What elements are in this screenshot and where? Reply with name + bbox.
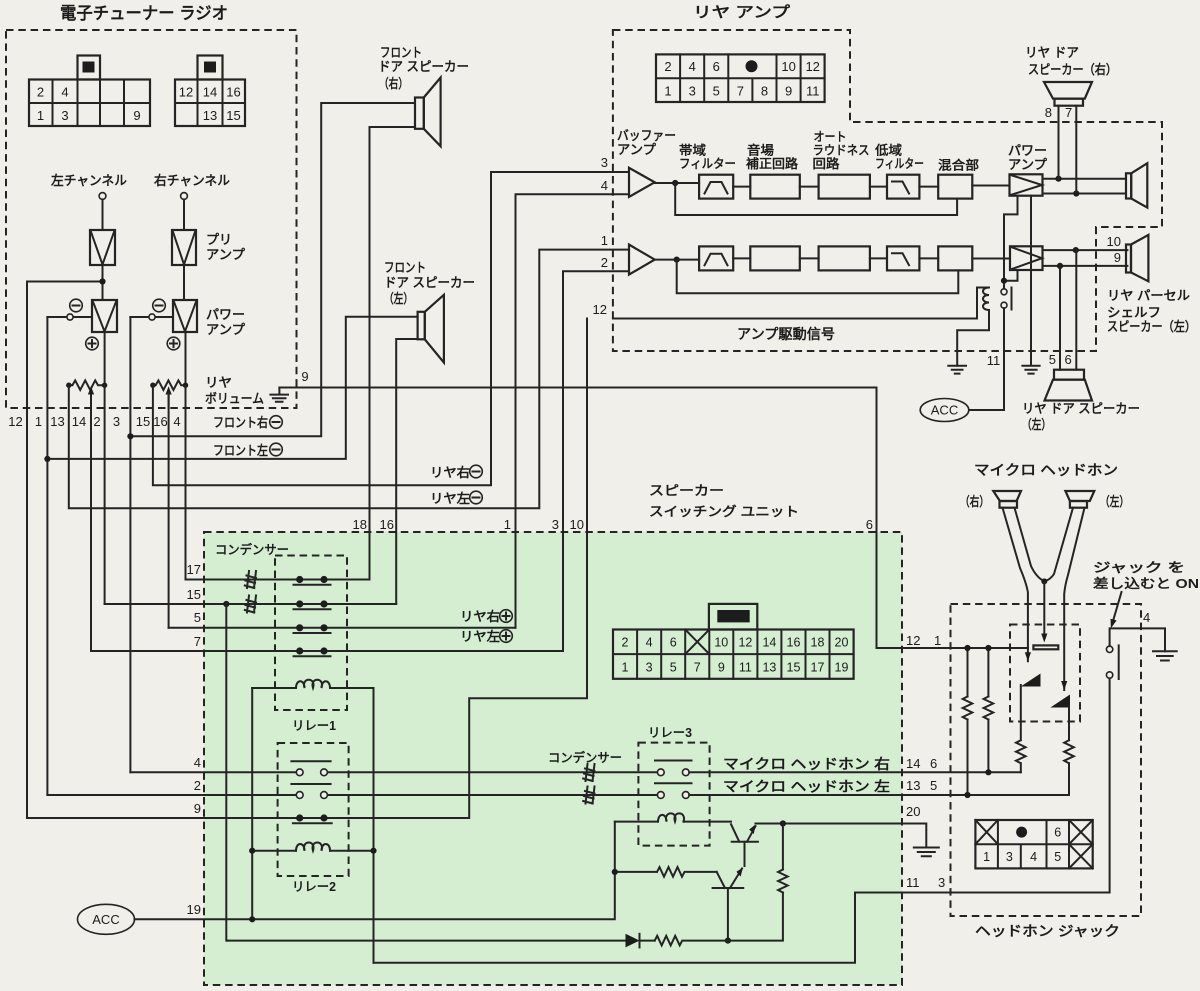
- rear volume pot L: [66, 380, 107, 408]
- svg-text:ACC: ACC: [931, 403, 958, 418]
- wire front left minus: radio pin1 to front left speaker: [47, 317, 417, 795]
- svg-text:スピーカー: スピーカー: [649, 483, 724, 498]
- relay1 row4 wire (green pin7, rear left plus): [91, 650, 563, 652]
- svg-text:4: 4: [1143, 610, 1150, 625]
- power amp L: [92, 300, 117, 332]
- green unit background: [204, 532, 902, 985]
- wire: [800, 257, 819, 259]
- svg-text:6: 6: [670, 636, 677, 650]
- svg-text:3: 3: [1006, 850, 1013, 864]
- svg-text:リヤ アンプ: リヤ アンプ: [693, 4, 791, 21]
- svg-text:シェルフ: シェルフ: [1107, 305, 1161, 320]
- headphone jack dashed box: [951, 604, 1142, 916]
- svg-text:左チャンネル: 左チャンネル: [51, 173, 127, 188]
- band filter box 1: [699, 175, 733, 199]
- svg-text:1: 1: [35, 414, 42, 429]
- svg-text:5: 5: [194, 610, 201, 625]
- resistor R2 pullup: [728, 824, 788, 941]
- wire buffer2 out: [655, 259, 699, 261]
- svg-text:補正回路: 補正回路: [745, 156, 799, 171]
- svg-text:3: 3: [113, 414, 120, 429]
- relay2 contact rowA open: [291, 761, 330, 775]
- svg-text:5: 5: [670, 661, 677, 675]
- svg-text:9: 9: [301, 369, 308, 384]
- wire rear right minus: radio pin15 to rear amp input3: [153, 172, 629, 485]
- connector B (radio 6-pin): [175, 56, 245, 127]
- relay2 contact rowC closed: [293, 814, 332, 823]
- relay2 coil: [249, 842, 377, 853]
- ground in radio box pin9: [270, 369, 308, 402]
- node pin3 branch: [127, 433, 133, 439]
- svg-text:アンプ駆動信号: アンプ駆動信号: [737, 326, 835, 342]
- svg-text:（右）: （右）: [960, 494, 989, 509]
- svg-text:10: 10: [570, 517, 584, 532]
- svg-text:19: 19: [835, 661, 849, 675]
- rear parcel shelf speaker: [1126, 235, 1148, 281]
- svg-text:16: 16: [226, 85, 240, 100]
- svg-text:2: 2: [194, 778, 201, 793]
- svg-text:アンプ: アンプ: [1008, 157, 1048, 172]
- svg-text:5: 5: [713, 84, 720, 99]
- power amp R input wire: [130, 316, 173, 318]
- svg-text:アンプ: アンプ: [206, 247, 246, 262]
- minus circle R: [153, 299, 166, 312]
- svg-text:6: 6: [1054, 826, 1061, 840]
- svg-text:15: 15: [226, 108, 240, 123]
- svg-text:12: 12: [805, 59, 819, 74]
- relay1 contact row3: [294, 624, 331, 633]
- pin20 external ground: [902, 824, 939, 857]
- svg-text:（左）: （左）: [1100, 494, 1129, 509]
- svg-text:4: 4: [689, 59, 696, 74]
- svg-text:ラウドネス: ラウドネス: [813, 144, 870, 158]
- svg-text:7: 7: [194, 634, 201, 649]
- wires down to rear door speaker left: [1060, 250, 1076, 370]
- wire rear right plus riser: relay row3 up to rear amp input4: [516, 194, 630, 628]
- power amp R: [173, 300, 197, 332]
- svg-text:4: 4: [173, 414, 180, 429]
- jack switch: [1106, 628, 1165, 679]
- svg-text:6: 6: [713, 59, 720, 74]
- relay1 contact row4: [294, 647, 331, 656]
- wire mixer1 to power amp1: [972, 185, 1009, 187]
- jack tip contact bar: [1033, 645, 1058, 649]
- svg-text:14: 14: [762, 636, 776, 650]
- power amp1 lower pin path: [1004, 196, 1018, 281]
- relay1 contact row2: [294, 600, 331, 609]
- rear speaker right-facing in box: [1126, 163, 1147, 207]
- svg-text:リヤ ドア スピーカー: リヤ ドア スピーカー: [1022, 401, 1140, 416]
- feedback wire row1: [675, 183, 957, 215]
- earpiece left: [1065, 491, 1094, 508]
- svg-text:（左）: （左）: [1022, 417, 1051, 432]
- svg-text:13: 13: [906, 778, 920, 793]
- node branch dot: [99, 278, 105, 284]
- svg-text:電子チューナー ラジオ: 電子チューナー ラジオ: [60, 4, 228, 23]
- svg-text:4: 4: [61, 85, 68, 100]
- svg-text:リレー2: リレー2: [292, 880, 336, 894]
- svg-text:（右）: （右）: [379, 76, 408, 91]
- wire Q1 emitter to pin20 line: [756, 823, 903, 825]
- sound field box 1: [750, 175, 800, 199]
- transistor Q1: [731, 824, 758, 866]
- rear door speaker left: [1045, 370, 1093, 401]
- cord right earpiece: [1003, 508, 1028, 662]
- rear amp dashed outline: [613, 30, 1162, 351]
- wire relays to jack switch (pin11/3): [374, 678, 1110, 963]
- svg-text:15: 15: [187, 587, 201, 602]
- svg-text:9: 9: [1114, 250, 1121, 265]
- right edge pin labels: [906, 633, 945, 890]
- svg-text:5: 5: [1049, 352, 1056, 367]
- svg-text:ドア スピーカー: ドア スピーカー: [378, 59, 469, 74]
- long ground bus wire to switching unit pin6: [279, 388, 876, 649]
- relay3 coil: [615, 813, 731, 821]
- svg-text:1: 1: [664, 84, 671, 99]
- svg-text:16: 16: [380, 517, 394, 532]
- wire: [919, 186, 938, 188]
- svg-text:9: 9: [194, 801, 201, 816]
- svg-text:リヤ パーセル: リヤ パーセル: [1107, 288, 1190, 303]
- svg-text:8: 8: [1045, 105, 1052, 120]
- relay1 dashed box: [275, 556, 347, 711]
- svg-text:12: 12: [8, 414, 22, 429]
- svg-text:12: 12: [179, 85, 193, 100]
- svg-text:17: 17: [187, 562, 201, 577]
- mixer box 2: [938, 246, 972, 270]
- svg-text:1: 1: [622, 661, 629, 675]
- svg-text:4: 4: [1030, 850, 1037, 864]
- svg-text:スピーカー（右）: スピーカー（右）: [1028, 62, 1117, 77]
- relay3 contact rowA open: [655, 761, 692, 776]
- wire: [870, 186, 887, 188]
- wire green pin6 line to pin12 out: [877, 647, 1028, 649]
- wire pin15 tap down to diode: [226, 604, 227, 941]
- front door speaker left: [418, 295, 444, 363]
- svg-text:リレー1: リレー1: [292, 719, 336, 733]
- svg-text:2: 2: [664, 59, 671, 74]
- svg-text:混合部: 混合部: [938, 158, 980, 173]
- buffer amp 2: [629, 245, 655, 275]
- svg-text:12: 12: [906, 633, 920, 648]
- wire front right minus: radio pin3 to front right speaker: [130, 103, 415, 772]
- relay coil vertical in rear amp: [957, 288, 989, 366]
- green unit dashed border: [204, 532, 902, 985]
- wire flag to resistor R5: [1064, 706, 1074, 795]
- jack inner dashed box: [1010, 625, 1080, 722]
- antenna terminal R: [181, 193, 188, 200]
- svg-text:アンプ: アンプ: [206, 322, 246, 337]
- resistor R3 diode line: [640, 936, 728, 946]
- wire: [919, 257, 938, 259]
- jack connector grid: [975, 820, 1092, 868]
- band filter box 2: [699, 246, 733, 270]
- wire rear left plus riser: relay row4 up to rear amp input2: [563, 271, 629, 651]
- plus circle L: [86, 337, 99, 350]
- relay2 dashed box: [278, 743, 349, 876]
- svg-text:6: 6: [1065, 352, 1072, 367]
- connector A (radio 9-pin): [29, 56, 150, 127]
- svg-text:フロント右: フロント右: [213, 415, 268, 430]
- svg-text:ドア スピーカー: ドア スピーカー: [384, 275, 475, 290]
- svg-text:5: 5: [930, 778, 937, 793]
- svg-text:20: 20: [906, 804, 920, 819]
- rear volume pot R: [150, 380, 188, 408]
- svg-text:（左）: （左）: [384, 291, 413, 306]
- svg-text:7: 7: [1065, 105, 1072, 120]
- svg-text:3: 3: [646, 661, 653, 675]
- ground pin4: [1153, 651, 1177, 660]
- svg-text:9: 9: [133, 108, 140, 123]
- svg-text:3: 3: [689, 84, 696, 99]
- resistor R6 supply left: [963, 648, 973, 795]
- svg-text:マイクロ ヘッドホン 左: マイクロ ヘッドホン 左: [723, 779, 890, 795]
- svg-text:リヤ右: リヤ右: [460, 609, 500, 624]
- svg-text:12: 12: [738, 636, 752, 650]
- svg-text:19: 19: [187, 902, 201, 917]
- svg-text:13: 13: [203, 108, 217, 123]
- radio pin numbers: [8, 414, 180, 429]
- svg-text:ジャック を: ジャック を: [1093, 560, 1185, 575]
- cord left earpiece: [1064, 508, 1084, 690]
- svg-text:14: 14: [906, 756, 920, 771]
- power amp1 ground leg: [1022, 196, 1039, 374]
- svg-text:4: 4: [194, 755, 201, 770]
- svg-text:リヤ左: リヤ左: [460, 629, 500, 644]
- svg-text:15: 15: [787, 661, 801, 675]
- low filter box 1: [887, 175, 919, 199]
- auto loudness box 2: [819, 246, 870, 270]
- power amp 1: [1010, 174, 1043, 195]
- relay1 coil: [252, 680, 373, 688]
- relay coils left rail: [251, 688, 253, 919]
- svg-text:6: 6: [866, 517, 873, 532]
- svg-text:回路: 回路: [813, 156, 841, 171]
- svg-text:リヤ左: リヤ左: [430, 491, 470, 506]
- relay2 contact rowB open: [291, 784, 330, 798]
- svg-text:リヤ右: リヤ右: [430, 465, 470, 480]
- wire: [800, 186, 819, 188]
- svg-text:フィルター: フィルター: [875, 156, 924, 171]
- wires up to rear door speaker right: [1059, 106, 1077, 194]
- svg-text:12: 12: [593, 302, 607, 317]
- svg-text:スピーカー（左）: スピーカー（左）: [1107, 319, 1196, 334]
- svg-text:低域: 低域: [874, 143, 903, 158]
- svg-text:マイクロ ヘッドホン 右: マイクロ ヘッドホン 右: [723, 756, 890, 772]
- svg-text:ボリューム: ボリューム: [205, 391, 264, 406]
- wire rear left minus: radio pin13 to rear amp input1: [69, 250, 629, 509]
- antenna terminal L: [99, 193, 106, 200]
- relay3 dashed box: [638, 743, 709, 846]
- wire preamp to poweramp R: [183, 265, 185, 300]
- svg-text:3: 3: [601, 155, 608, 170]
- power amp2 output wires: [1043, 250, 1128, 266]
- plus circle R: [167, 337, 180, 350]
- capacitor headphone left line: [583, 787, 594, 804]
- svg-text:1: 1: [934, 633, 941, 648]
- wire: [733, 186, 750, 188]
- node pin1 branch: [44, 456, 50, 462]
- svg-text:5: 5: [1054, 850, 1061, 864]
- svg-text:1: 1: [601, 233, 608, 248]
- svg-text:3: 3: [938, 875, 945, 890]
- svg-text:13: 13: [50, 414, 64, 429]
- power amp1 output wires to speakers: [1043, 179, 1127, 194]
- svg-text:2: 2: [93, 414, 100, 429]
- cord junction: [1041, 578, 1047, 584]
- svg-text:10: 10: [1107, 234, 1121, 249]
- jack insert arrow: [1113, 592, 1122, 621]
- buffer amp 1: [629, 168, 655, 197]
- wire preamp to poweramp L with branch: [27, 265, 103, 300]
- wire radio pin4 down to green pin17: [185, 385, 187, 579]
- 20-pin connector: [613, 604, 854, 679]
- amp drive signal wire: [613, 288, 977, 319]
- svg-text:パワー: パワー: [1008, 143, 1047, 158]
- resistor R1 base: [615, 867, 717, 877]
- svg-text:ACC: ACC: [92, 912, 119, 927]
- relay1 row3 wire (green pin5, rear right plus): [169, 627, 516, 629]
- svg-text:音場: 音場: [747, 143, 775, 158]
- ACC oval left: [78, 904, 135, 934]
- wire: [102, 199, 104, 230]
- relay1 contact row1: [294, 576, 331, 585]
- wire radio pin2 down to green pin15: [104, 385, 106, 604]
- svg-text:17: 17: [811, 661, 825, 675]
- svg-text:1: 1: [983, 850, 990, 864]
- wire: [733, 257, 750, 259]
- junction dots jack: [964, 645, 970, 651]
- svg-text:14: 14: [72, 414, 86, 429]
- top edge pin labels: [353, 517, 873, 532]
- front door speaker right: [415, 78, 441, 147]
- svg-text:アンプ: アンプ: [617, 142, 657, 157]
- ground pin11 rear amp: [948, 366, 966, 374]
- svg-text:4: 4: [646, 636, 653, 650]
- relay1 row2 wire (green pin15): [105, 603, 397, 605]
- relay1 row1 wire (green pin17): [186, 579, 370, 581]
- svg-text:11: 11: [987, 353, 1001, 368]
- capacitor row17: [245, 571, 256, 588]
- left edge pin labels: [187, 562, 201, 917]
- wire rowB to jack: [689, 794, 1069, 796]
- svg-text:バッファー: バッファー: [617, 128, 676, 143]
- svg-text:帯域: 帯域: [679, 143, 707, 158]
- svg-text:11: 11: [806, 84, 820, 99]
- svg-text:フロント左: フロント左: [213, 443, 268, 458]
- svg-text:パワー: パワー: [206, 307, 245, 322]
- relay3 contact rowB open: [655, 783, 692, 798]
- svg-text:フィルター: フィルター: [679, 156, 736, 171]
- sound field box 2: [750, 246, 800, 270]
- resistor R7 supply right: [984, 648, 994, 772]
- svg-text:ヘッドホン ジャック: ヘッドホン ジャック: [975, 923, 1120, 939]
- svg-text:18: 18: [353, 517, 367, 532]
- low filter box 2: [887, 246, 919, 270]
- power amp outputs down to volume pots: [105, 332, 186, 385]
- svg-text:マイクロ ヘッドホン: マイクロ ヘッドホン: [974, 462, 1118, 478]
- relay2 rowA wire (green pin4, to headphone right): [130, 771, 657, 773]
- relay2 rowB wire (green pin2, to headphone left): [47, 794, 657, 796]
- jack contact flag right channel: [1021, 674, 1041, 687]
- svg-text:リヤ ドア: リヤ ドア: [1025, 45, 1079, 60]
- wire radio pin16 down to green pin5: [168, 393, 170, 628]
- svg-text:3: 3: [61, 108, 68, 123]
- wire rowA to jack: [689, 771, 1021, 773]
- ACC oval rear amp: [920, 399, 969, 422]
- svg-text:9: 9: [785, 84, 792, 99]
- svg-text:13: 13: [762, 661, 776, 675]
- svg-text:スイッチング ユニット: スイッチング ユニット: [649, 504, 799, 519]
- auto loudness box 1: [819, 175, 870, 199]
- transistor Q2: [713, 868, 744, 941]
- svg-text:11: 11: [739, 661, 752, 675]
- svg-text:4: 4: [601, 178, 608, 193]
- svg-text:コンデンサー: コンデンサー: [548, 750, 622, 765]
- capacitor row15: [245, 596, 256, 613]
- wire: [183, 199, 185, 230]
- svg-text:2: 2: [601, 255, 608, 270]
- preamp R: [172, 230, 196, 265]
- wire mixer2 to power amp2: [972, 258, 1010, 260]
- svg-text:差し込むと ON: 差し込むと ON: [1093, 576, 1199, 591]
- svg-text:フロント: フロント: [384, 260, 426, 275]
- svg-text:3: 3: [552, 517, 559, 532]
- svg-text:プリ: プリ: [206, 232, 232, 247]
- svg-text:16: 16: [787, 636, 801, 650]
- wire front right speaker return to relay1 row1: [370, 127, 416, 580]
- svg-text:オート: オート: [814, 130, 847, 144]
- svg-text:右チャンネル: 右チャンネル: [153, 173, 230, 188]
- relay switch in rear amp: [969, 284, 1012, 411]
- wire buffer1 out: [655, 182, 699, 184]
- wire: [870, 257, 887, 259]
- svg-text:リヤ: リヤ: [205, 375, 232, 390]
- svg-text:2: 2: [622, 636, 629, 650]
- svg-text:6: 6: [930, 756, 937, 771]
- wire pin19 ACC line: [135, 822, 615, 920]
- svg-text:20: 20: [835, 636, 849, 650]
- svg-text:14: 14: [203, 85, 217, 100]
- svg-text:16: 16: [153, 414, 167, 429]
- svg-text:7: 7: [694, 661, 701, 675]
- preamp L: [90, 230, 115, 265]
- wire front left speaker return to relay1 row2: [396, 339, 417, 604]
- relay2 rowC wire (green pin9, amp drive): [27, 817, 324, 819]
- wire radio pin14 down to green pin7: [90, 408, 92, 651]
- rear amp connector 12-pin: [656, 54, 825, 102]
- power amp 2: [1010, 246, 1043, 270]
- relay coils right rail: [373, 688, 375, 963]
- wire flag to resistor R4: [1016, 685, 1026, 772]
- rear door speaker right: [1044, 82, 1092, 106]
- svg-text:2: 2: [37, 85, 44, 100]
- svg-text:8: 8: [761, 84, 768, 99]
- wire radio pin12 down to green pin9: [26, 282, 28, 819]
- diode: [228, 934, 640, 948]
- capacitor headphone right line: [583, 764, 594, 781]
- power amp L input wire: [47, 316, 92, 318]
- svg-text:15: 15: [136, 414, 150, 429]
- svg-text:リレー3: リレー3: [648, 726, 692, 740]
- svg-text:9: 9: [718, 661, 725, 675]
- svg-text:10: 10: [714, 636, 728, 650]
- svg-text:1: 1: [504, 517, 511, 532]
- svg-text:10: 10: [781, 59, 795, 74]
- svg-text:7: 7: [737, 84, 744, 99]
- radio unit dashed box: [6, 30, 297, 408]
- svg-text:1: 1: [37, 108, 44, 123]
